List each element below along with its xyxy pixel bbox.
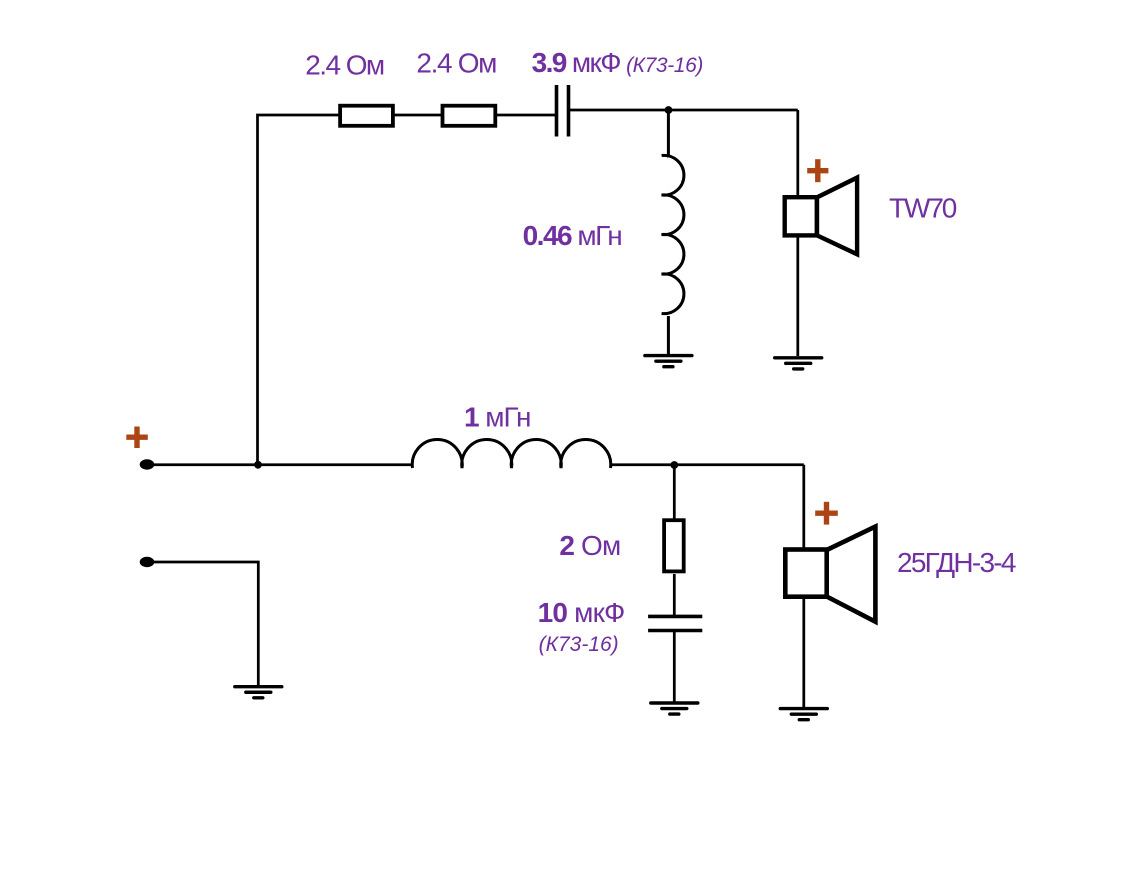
wire: tweeter drop from top branch to ground [796, 110, 799, 356]
wire R1 to R2 [394, 114, 442, 117]
node A junction dot [665, 106, 673, 114]
wire: woofer drop to ground [802, 465, 805, 707]
ground G3 (below C2) [651, 703, 698, 714]
wire C2 to ground [673, 631, 676, 703]
ground G5 (input return) [235, 687, 282, 698]
svg-text:3.9 мкФ (К73-16): 3.9 мкФ (К73-16) [532, 47, 703, 78]
plus sign (input polarity) [126, 427, 148, 449]
svg-text:2.4 Ом: 2.4 Ом [416, 47, 496, 78]
svg-text:2 Ом: 2 Ом [559, 530, 620, 561]
resistor R2 (2.4 Ом) [443, 106, 496, 126]
speaker SPK2 25ГДН-3-4 [827, 527, 876, 622]
wire: input to L2 [147, 463, 413, 466]
svg-text:(К73-16): (К73-16) [539, 633, 619, 656]
svg-text:TW70: TW70 [889, 192, 957, 223]
capacitor C1 (3.9 мкФ) plates [555, 85, 559, 137]
wire node B down to R3 [673, 465, 676, 519]
ground G1 (below L1) [645, 356, 692, 367]
node B junction dot [670, 461, 678, 469]
resistor R3 (2 Ом, vertical) [664, 520, 684, 571]
ground G4 (below woofer) [780, 709, 827, 720]
resistor R1 (2.4 Ом) [340, 106, 393, 126]
wire R2 to C1 [496, 114, 556, 117]
input terminal IN- [140, 557, 155, 567]
svg-text:2.4 Ом: 2.4 Ом [305, 50, 384, 81]
svg-text:0.46 мГн: 0.46 мГн [523, 220, 622, 251]
inductor L1 0.46 мГн (vertical coil) [667, 110, 670, 158]
capacitor C2 (10 мкФ) plates [648, 615, 702, 619]
plus sign (tweeter polarity) [807, 159, 828, 182]
input terminal IN+ [140, 459, 155, 469]
speaker SPK1 TW70 [817, 178, 857, 255]
svg-text:10 мкФ: 10 мкФ [538, 597, 625, 628]
svg-text:1 мГн: 1 мГн [464, 402, 530, 433]
junction dot at riser [254, 461, 262, 469]
inductor L2 1 мГн (horizontal coil) [412, 439, 611, 468]
svg-text:25ГДН-3-4: 25ГДН-3-4 [897, 547, 1016, 578]
plus sign (woofer polarity) [815, 502, 838, 525]
wire: L2 to woofer corner [610, 463, 804, 466]
wire C1 to tweeter corner [569, 109, 798, 112]
wire: left riser from input junction up to top branch [258, 115, 340, 465]
wire: input- to ground [147, 562, 258, 686]
wire R3 to C2 [673, 574, 676, 616]
ground G2 (below tweeter) [775, 358, 822, 369]
